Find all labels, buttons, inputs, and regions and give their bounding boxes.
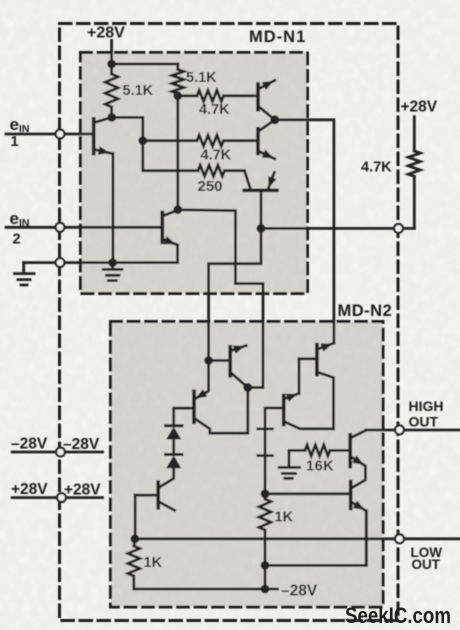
ground symbol (inner) [103, 263, 122, 281]
resistor R8 1K [259, 494, 271, 566]
node D (R4 tee) [138, 136, 147, 145]
crossover tick 2 [258, 454, 273, 457]
diode D2 [159, 455, 182, 488]
diode D1 [166, 408, 183, 454]
transistor Q3b (lower pair) [258, 120, 275, 159]
wire node E to crossover [178, 210, 263, 388]
node F (pair emitter junction) [270, 115, 279, 124]
wire Q9 base column [265, 408, 283, 494]
wire ground rail [24, 261, 178, 264]
outer dashed enclosure [60, 24, 399, 621]
transistor Q11 [351, 482, 367, 566]
terminal e_in1 [56, 130, 65, 139]
transistor Q3a (upper pair) [258, 80, 275, 120]
node B (Q1 collector junction) [107, 113, 116, 122]
terminal -28V [56, 448, 65, 457]
wire pair junction to Q8 emitter column [275, 120, 334, 343]
node I (Q5 base tee) [204, 356, 213, 365]
terminal output node [394, 224, 403, 233]
transistor Q6 (PNP) [174, 388, 248, 434]
node C (R2/R3 junction) [173, 91, 182, 100]
resistor R7 16K [289, 445, 350, 456]
scan noise overlay [0, 0, 1, 1]
ground symbol (16K) [279, 450, 299, 478]
node L (1K tap junction) [261, 489, 270, 498]
transistor Q9 [284, 359, 334, 429]
transistor Q4 (rotated, PNP) [244, 171, 277, 229]
wire top rail [112, 63, 178, 66]
wire +28V rail (left) [12, 496, 102, 499]
node J (Q5 collector junction) [243, 383, 252, 392]
node N (-28V junction) [261, 585, 270, 594]
transistor Q10 [350, 430, 460, 488]
resistor R9 1K [128, 539, 278, 589]
wire e_in2 lead [6, 226, 161, 229]
wire low out line [135, 537, 460, 540]
node A (top junction) [107, 60, 116, 69]
resistor R1 5.1K [105, 64, 118, 117]
terminal +28V [57, 493, 66, 502]
resistor R5 250 [198, 165, 245, 176]
transistor Q1 [94, 117, 113, 262]
wire +28V supply drop [110, 41, 113, 65]
ground symbol (left outer) [15, 263, 34, 285]
wire path A tail to Q6 emitter [195, 361, 209, 399]
wire R5 feed [143, 141, 198, 171]
wire emitter return [265, 511, 366, 566]
crossover tick 1 [258, 427, 273, 430]
transistor Q8 [299, 343, 334, 429]
transistor Q5 [209, 345, 248, 387]
terminal ground [56, 258, 65, 267]
terminal high out [395, 426, 404, 435]
wire path A into MD-N2 [209, 228, 261, 360]
resistor R2 5.1K [172, 64, 184, 96]
wire Q1 collector to R4 feed [112, 117, 143, 140]
wire R8 to -28V rail [264, 565, 267, 589]
wire +28V pull-up column [408, 117, 420, 229]
node G (output junction) [257, 224, 266, 233]
node E (Q2 collector junction) [173, 205, 182, 214]
resistor R4 4.7K [143, 135, 257, 146]
module box MD-N1 (shaded) [81, 53, 308, 294]
node K (low-out left junction) [131, 534, 140, 543]
transistor Q12 [135, 482, 174, 538]
wire bias column [176, 96, 179, 210]
resistor R3 4.7K [178, 90, 257, 101]
wire Q11 base line [265, 492, 350, 495]
wire -28V rail (left) [12, 451, 102, 454]
wire output line to +28V pull-up [261, 227, 414, 230]
transistor Q2 [162, 210, 178, 262]
node M [261, 561, 270, 570]
node H (emitter ground junction) [108, 258, 117, 267]
wire e_in1 lead [6, 133, 93, 136]
module box MD-N2 (shaded) [111, 322, 384, 608]
terminal e_in2 [56, 223, 65, 232]
terminal low out [395, 534, 404, 543]
